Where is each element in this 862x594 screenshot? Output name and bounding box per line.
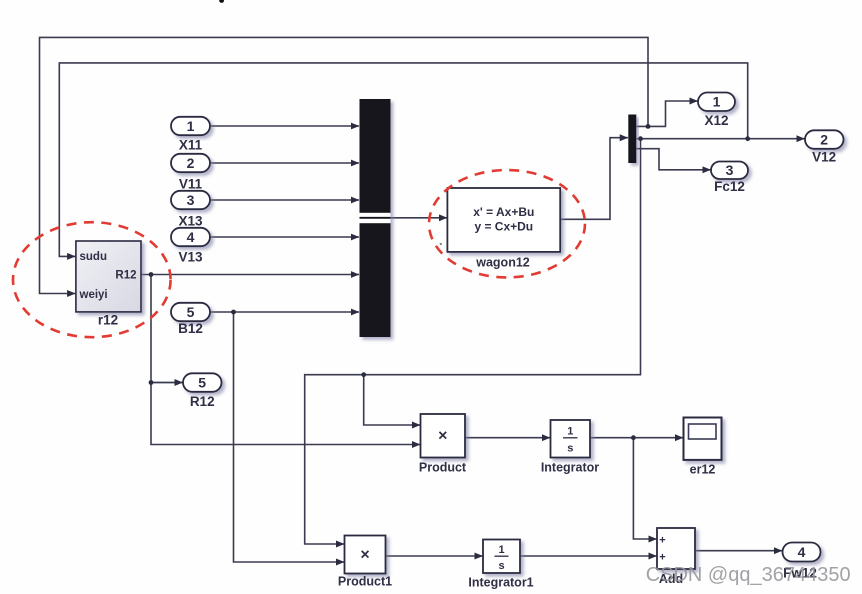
- wire: r12 R12 output to mux: [141, 274, 359, 276]
- svg-text:5: 5: [198, 374, 206, 390]
- svg-text:+: +: [659, 535, 665, 547]
- wire: R12 branch to outport 5 R12: [151, 382, 183, 384]
- outport oval 3 Fc12: [711, 162, 748, 180]
- svg-text:s: s: [498, 560, 504, 572]
- svg-text:R12: R12: [190, 394, 215, 409]
- svg-text:×: ×: [360, 547, 369, 564]
- red dashed ellipse around wagon12: [429, 170, 585, 277]
- wire: Product to Integrator: [465, 437, 550, 439]
- outport oval 4: [783, 543, 821, 562]
- mux white stripe: [360, 213, 391, 223]
- svg-text:1: 1: [187, 118, 195, 134]
- demux (small black bar): [628, 115, 636, 164]
- svg-text:1: 1: [498, 544, 504, 556]
- inport oval 1: [171, 117, 210, 135]
- cursor artifact blob at top: [219, 0, 224, 3]
- svg-text:V13: V13: [178, 249, 203, 264]
- svg-text:B12: B12: [178, 321, 203, 336]
- outport oval 2 V12: [805, 130, 844, 149]
- svg-text:V11: V11: [179, 176, 203, 191]
- svg-text:5: 5: [187, 304, 195, 320]
- inport oval 2: [171, 154, 210, 172]
- svg-text:4: 4: [798, 544, 806, 560]
- wire: demux port3 to Fc12 outport: [636, 149, 710, 170]
- svg-text:2: 2: [187, 155, 195, 171]
- junction node on R12 vertical at outport 5: [149, 380, 154, 385]
- wire: inport2 to mux: [210, 162, 359, 164]
- Product1 block: [345, 536, 386, 574]
- junction node on V12 wire at inner feedback: [745, 136, 750, 141]
- wire: Product1 to Integrator1: [386, 555, 483, 557]
- svg-text:sudu: sudu: [80, 251, 107, 263]
- svg-text:X12: X12: [704, 113, 728, 128]
- wire: demux port2 to V12 outport: [636, 138, 804, 140]
- junction node on Integrator output: [631, 435, 636, 440]
- svg-text:V12: V12: [812, 149, 836, 164]
- wire: Integrator1 to Add bottom input: [521, 555, 657, 557]
- wire: Add output to outport 4: [695, 550, 782, 552]
- inport oval 3: [171, 191, 210, 209]
- wire: B12 branch down to Product1 bottom input: [234, 312, 345, 562]
- wire: inner feedback V12 to sudu: [59, 63, 747, 257]
- svg-text:Fc12: Fc12: [714, 179, 745, 194]
- svg-text:Product: Product: [419, 461, 467, 475]
- wire: branch to Product top input: [364, 375, 420, 425]
- wire: Integrator to er12 scope: [590, 437, 683, 439]
- junction node on branch wire y375: [361, 372, 366, 377]
- state-space block wagon12: [447, 188, 560, 252]
- junction node on V12 wire near demux: [638, 136, 643, 141]
- svg-text:4: 4: [187, 229, 195, 245]
- wire: R12 branch down to Product bottom input: [151, 275, 420, 445]
- wire: inport5 B12 to mux: [210, 311, 359, 313]
- outport oval 1 X12: [698, 93, 735, 112]
- wire: mux output to state-space: [360, 217, 447, 219]
- wire: outer feedback X12 to weiyi: [40, 37, 649, 293]
- wire: state-space output to demux: [560, 138, 628, 220]
- red dashed ellipse around r12: [13, 222, 171, 337]
- junction node on B12 wire: [231, 310, 236, 315]
- Product block: [421, 414, 466, 458]
- svg-text:s: s: [567, 443, 573, 455]
- junction node on demux port1 wire: [646, 124, 651, 129]
- svg-text:X11: X11: [179, 138, 203, 153]
- svg-text:×: ×: [438, 428, 447, 445]
- outport oval 5 R12: [183, 373, 222, 392]
- junction node on R12 output: [149, 272, 154, 277]
- svg-text:X13: X13: [178, 213, 203, 228]
- speck near wagon12: [440, 243, 442, 245]
- svg-text:1: 1: [567, 426, 573, 438]
- svg-text:x' = Ax+Bu: x' = Ax+Bu: [473, 205, 534, 219]
- svg-text:+: +: [659, 552, 665, 564]
- svg-text:Integrator1: Integrator1: [468, 576, 533, 590]
- svg-text:weiyi: weiyi: [79, 289, 108, 301]
- er12 scope block: [684, 418, 722, 460]
- svg-text:y = Cx+Du: y = Cx+Du: [474, 220, 533, 234]
- svg-text:r12: r12: [98, 313, 118, 328]
- Add block: [657, 528, 695, 569]
- svg-text:Product1: Product1: [338, 575, 392, 589]
- Integrator1 block: [483, 540, 520, 574]
- subsystem r12: [76, 241, 141, 312]
- wire: V12 branch down and across to Product1 top input: [305, 139, 641, 544]
- mux (black bar): [360, 99, 391, 337]
- svg-text:R12: R12: [115, 270, 136, 282]
- svg-text:1: 1: [713, 94, 721, 110]
- inport oval 4: [171, 228, 210, 246]
- mux stripe wire line: [360, 217, 391, 219]
- svg-text:wagon12: wagon12: [475, 256, 530, 270]
- svg-text:CSDN @qq_36744350: CSDN @qq_36744350: [646, 564, 851, 586]
- svg-text:3: 3: [726, 162, 734, 178]
- Integrator block: [551, 420, 591, 458]
- svg-text:3: 3: [187, 192, 195, 208]
- inport oval 5: [171, 303, 210, 321]
- wire: inport3 to mux: [210, 199, 359, 201]
- wire: demux port1 to X12 outport: [636, 101, 697, 126]
- svg-text:2: 2: [820, 131, 828, 147]
- wire: inport1 to mux: [210, 125, 359, 127]
- svg-text:er12: er12: [690, 463, 716, 477]
- wire: branch down to Add top input: [633, 438, 656, 539]
- wire: inport4 to mux: [210, 236, 359, 238]
- svg-text:Integrator: Integrator: [541, 461, 599, 475]
